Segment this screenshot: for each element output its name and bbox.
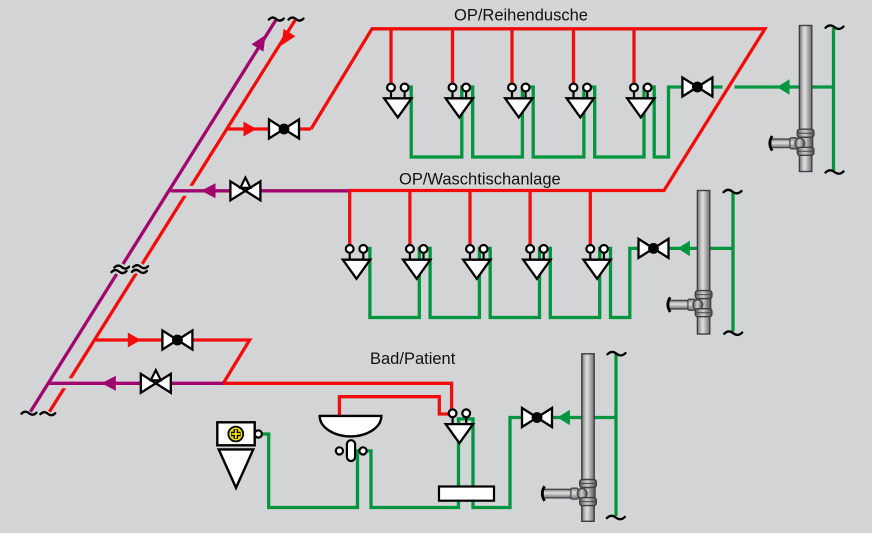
- purple circulation line row 3: [49, 382, 224, 385]
- break tilde green riser 3 bottom: [607, 516, 625, 519]
- gap in red diagonal at purple row-2 crossing: [183, 186, 193, 196]
- svg-text:OP/Waschtischanlage: OP/Waschtischanlage: [399, 171, 561, 189]
- shower fixture row 3: [446, 409, 473, 443]
- green circulation riser row 2: [731, 192, 734, 332]
- basin angle valve left: [336, 447, 343, 454]
- water heater funnel triangle: [219, 449, 254, 487]
- break tilde green riser 2 bottom: [724, 331, 742, 334]
- purple circulation line row 2: [171, 189, 349, 192]
- svg-text:OP/Reihendusche: OP/Reihendusche: [454, 7, 588, 25]
- valve with drain purple row 3: [141, 370, 171, 393]
- green circulation serpentine row 2 (OP/Waschtischanlage): [363, 248, 733, 317]
- heat exchanger box row 3: [439, 487, 494, 501]
- break tilde red riser top: [289, 18, 304, 21]
- break tilde red riser bottom: [40, 412, 55, 415]
- red arrow row 1 branch: [244, 122, 257, 137]
- washstand fixture W4: [523, 245, 550, 279]
- washstand fixture W3: [463, 245, 490, 279]
- red drop to washstand 4: [528, 191, 531, 246]
- gray pipe riser 1: [770, 26, 814, 172]
- break tilde green riser 1 top: [826, 25, 844, 28]
- valve with drain purple row 2: [230, 178, 260, 201]
- green arrow row 3 (left): [557, 410, 570, 426]
- green arrow row 1 (left): [777, 79, 790, 95]
- red distribution loop row 1 and row 2: [311, 29, 765, 191]
- green circulation line row 3 basin to riser: [364, 418, 616, 508]
- red drop to shower 3: [510, 29, 513, 84]
- gap in green where red diagonal crosses: [723, 82, 735, 92]
- red drop to washstand 1: [348, 191, 351, 246]
- shower fixture S1: [384, 84, 411, 118]
- shut-off valve green row 2: [639, 239, 669, 258]
- red flow arrow on riser diagonal (down): [282, 29, 296, 46]
- red hot water riser diagonal: [49, 20, 295, 412]
- green circulation line row 3 (Bad/Patient) heater to basin: [260, 434, 363, 508]
- shut-off valve red row 3: [162, 331, 192, 350]
- shower fixture S5: [627, 84, 654, 118]
- double break on purple diagonal: [112, 266, 130, 274]
- green circulation riser row 1: [832, 28, 835, 171]
- double break on red diagonal: [132, 265, 148, 273]
- shower fixture S4: [567, 84, 594, 118]
- red drop to shower 5: [632, 29, 635, 84]
- svg-text:Bad/Patient: Bad/Patient: [370, 350, 456, 368]
- red supply line row 3 Bad/Patient: [95, 340, 452, 409]
- washstand fixture W2: [403, 245, 430, 279]
- basin angle valve right: [359, 447, 366, 454]
- green circulation riser row 3: [614, 354, 617, 516]
- basin trap: [347, 440, 355, 461]
- break tilde green riser 3 top: [608, 352, 626, 355]
- purple circulation riser diagonal: [30, 20, 276, 412]
- water heater box: [217, 422, 262, 445]
- break tilde green riser 2 top: [724, 190, 742, 193]
- break tilde green riser 1 bottom: [826, 170, 844, 173]
- shut-off valve green row 1: [682, 78, 712, 97]
- washstand fixture W5: [583, 245, 610, 279]
- washstand fixture W1: [343, 245, 370, 279]
- break tilde purple riser top: [269, 18, 284, 21]
- red branch to washbasin: [339, 397, 448, 416]
- shower fixture S3: [505, 84, 532, 118]
- shut-off valve red row 1: [269, 120, 299, 139]
- red supply branch to row 1 with valve: [226, 127, 311, 130]
- green arrow row 2 (left): [678, 241, 691, 257]
- gray pipe riser 2: [668, 191, 712, 335]
- red drop to shower 1: [389, 29, 392, 84]
- shower fixture S2: [446, 84, 473, 118]
- purple arrow row 2 (left): [201, 183, 215, 198]
- gap in red diagonal at purple row-3 crossing: [63, 378, 73, 388]
- red drop to washstand 3: [468, 191, 471, 246]
- washbasin: [320, 416, 382, 436]
- red drop to washstand 2: [408, 191, 411, 246]
- gray pipe riser 3: [542, 354, 596, 522]
- purple flow arrow on riser diagonal (up): [252, 35, 266, 52]
- purple arrow row 3 (left): [101, 376, 115, 391]
- break tilde purple riser bottom: [22, 412, 37, 415]
- red drop to shower 2: [451, 29, 454, 84]
- shut-off valve green row 3: [522, 408, 552, 427]
- red drop to washstand 5: [589, 191, 592, 246]
- red drop to shower 4: [572, 29, 575, 84]
- green circulation serpentine row 1 (OP/Reihendusche): [405, 87, 834, 157]
- red arrow row 3 branch: [128, 333, 141, 348]
